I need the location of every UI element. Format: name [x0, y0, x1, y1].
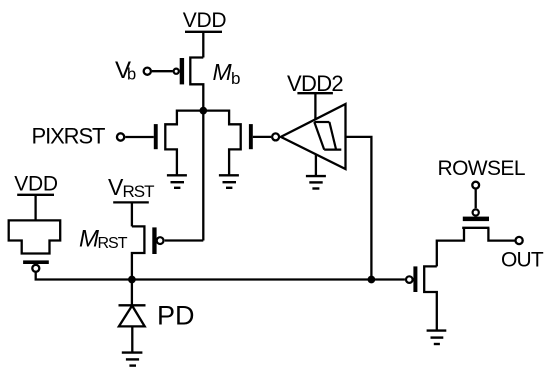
wire VDD2 rail to amp: [314, 93, 316, 120]
wire node A down (center rail): [202, 111, 204, 241]
power rail VDD (top): [185, 31, 222, 33]
ground under M1: [167, 175, 187, 188]
net VRST label: [108, 174, 154, 201]
node C junction dot: [128, 276, 136, 284]
wire MRST gate to node A rail: [165, 239, 204, 241]
ground under M2: [219, 175, 239, 188]
wire Vb to Mb gate: [152, 70, 173, 72]
wire device gate to bus: [36, 272, 132, 280]
wire VRST rail to MRST drain: [131, 202, 133, 226]
svg-text:ROWSEL: ROWSEL: [438, 157, 525, 180]
label Mb: [213, 59, 241, 88]
photodiode PD: [119, 280, 146, 352]
transistor MRST (PMOS, gate right): [132, 226, 164, 279]
label Vb: [115, 57, 136, 84]
vertical PMOS gate bar: [23, 260, 49, 264]
terminal Vb: [144, 68, 151, 75]
svg-text:PIXRST: PIXRST: [32, 123, 106, 148]
svg-text:VDD: VDD: [183, 9, 227, 32]
svg-text:OUT: OUT: [501, 249, 544, 272]
vertical PMOS device body (T-shaped outline): [9, 220, 61, 253]
vertical PMOS gate bubble: [32, 265, 39, 272]
power rail VDD (left): [17, 194, 54, 196]
svg-text:M: M: [79, 226, 99, 253]
wire Msel right stub to OUT: [488, 228, 515, 241]
svg-text:b: b: [127, 66, 136, 84]
wire VDD rail to device: [34, 195, 36, 221]
node A junction dot: [199, 107, 207, 115]
wire PIXRST to gate: [125, 136, 154, 138]
wire VDD rail to Mb drain: [202, 32, 204, 58]
svg-text:PD: PD: [157, 300, 195, 330]
op-amp U1 input bubble: [272, 133, 279, 140]
label MRST: [79, 226, 128, 253]
op-amp U1 Schmitt buffer triangle: [281, 104, 346, 169]
wire ROWSEL to gate bubble: [475, 189, 477, 208]
svg-text:RST: RST: [123, 182, 155, 201]
node B junction dot: [368, 276, 376, 284]
terminal OUT: [516, 237, 523, 244]
wire drain bus between pair: [177, 109, 229, 111]
svg-text:VDD: VDD: [14, 172, 58, 195]
power rail VDD2: [297, 92, 333, 94]
ground under U1: [306, 176, 326, 188]
transistor M2 right of pair (PMOS, mirrored): [229, 110, 253, 176]
transistor Msel gate bar (horizontal): [463, 217, 489, 222]
transistor M3 (PMOS, gate left): [406, 266, 437, 329]
terminal ROWSEL: [472, 182, 479, 189]
wire Msel left stub down to M3: [437, 228, 464, 267]
transistor Mb (PMOS): [174, 58, 204, 109]
svg-text:M: M: [213, 59, 233, 85]
wire M2 gate to buffer input: [253, 136, 271, 138]
ground under PD: [122, 353, 143, 366]
power rail VRST: [113, 201, 149, 203]
svg-text:b: b: [231, 69, 240, 88]
ground under M3: [427, 331, 447, 344]
transistor Msel channel: [462, 227, 489, 229]
transistor Msel pass gate bubble: [473, 209, 479, 215]
wire U1 output to bus: [346, 137, 372, 280]
main bus wire: [132, 278, 405, 280]
transistor M1 left of PIXRST pair (PMOS): [154, 110, 177, 176]
terminal PIXRST: [117, 133, 124, 140]
hysteresis symbol inside U1: [314, 122, 341, 150]
wire amp bottom to ground: [315, 154, 317, 175]
svg-text:RST: RST: [98, 235, 128, 252]
